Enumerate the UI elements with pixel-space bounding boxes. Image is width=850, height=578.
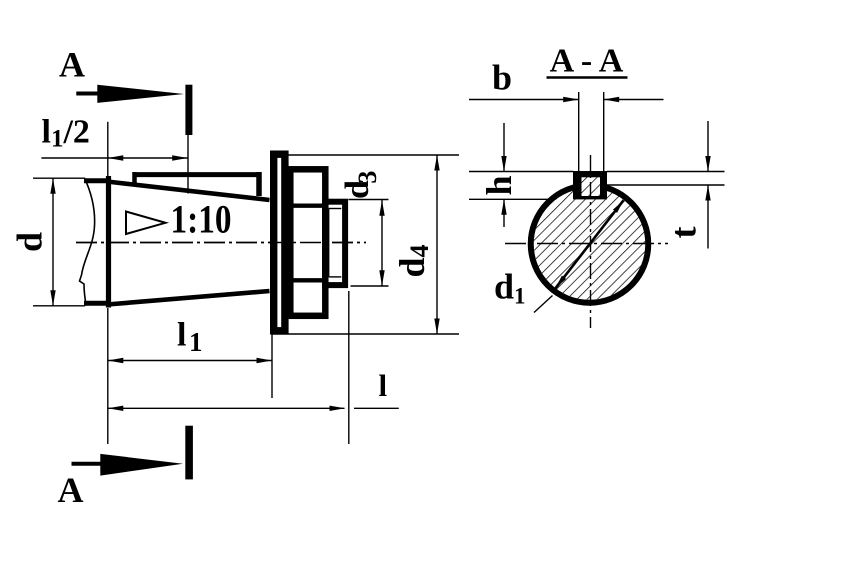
arrow b left pointing right [563, 97, 579, 102]
arrow l1 right [257, 358, 273, 363]
svg-text:A: A [59, 45, 85, 85]
extension line below section bar [187, 135, 189, 194]
arrow d4 top [434, 155, 439, 171]
dimension line l1/2 [41, 157, 188, 159]
dimension line d3 [381, 200, 383, 286]
dimension line h lower stem [503, 199, 505, 227]
svg-text:d: d [10, 232, 50, 252]
extension line b right [603, 92, 605, 180]
extension line keyway top level (h and t) [469, 171, 574, 173]
cone big end edge [106, 176, 111, 308]
section bar top [185, 85, 192, 135]
svg-text:l1/2: l1/2 [42, 114, 90, 153]
extension line left of dimension d bottom [33, 305, 85, 307]
section arrow top tail [76, 92, 99, 96]
nut body [290, 169, 325, 315]
extension line b left [578, 92, 580, 180]
svg-text:b: b [492, 58, 512, 98]
key top line on cone [134, 172, 261, 177]
CENTERLINES [76, 155, 668, 328]
centerline left view over white interiors [76, 242, 366, 244]
dimension line t upper stem [707, 121, 709, 172]
leader line d1 [534, 296, 553, 313]
extension line t bottom (circle top tangent) [605, 184, 725, 186]
arrow h bottom pointing up [501, 199, 506, 215]
THIN LINES LEFT VIEW [33, 122, 459, 444]
shaft cylinder top line [84, 178, 110, 183]
extension line right end of shaft [348, 291, 350, 444]
extension line left of dimension d top [33, 177, 85, 179]
taper symbol triangle 1:10 [126, 212, 166, 235]
LEFT VIEW THICK SHAPES [80, 154, 346, 331]
arrow h top pointing down [501, 156, 506, 172]
cone top generatrix [107, 182, 270, 201]
d1 diameter arrow [555, 200, 623, 288]
section bar bottom [185, 426, 193, 480]
arrow l1/2 left [108, 155, 124, 160]
svg-text:h: h [479, 175, 519, 195]
extension line h bottom [469, 198, 557, 200]
dimension line l1 [108, 360, 272, 362]
dimension line h upper stem [503, 123, 505, 172]
centerline section vertical [590, 155, 592, 328]
shaft section outline circle [531, 185, 649, 303]
arrow l1 left [108, 358, 124, 363]
arrow d3 bottom [379, 270, 384, 286]
arrow t bottom pointing up [705, 185, 710, 201]
extension line d4 bottom [273, 333, 460, 335]
section arrow top triangle [97, 85, 184, 103]
dimension line l left part [108, 407, 345, 409]
arrow d top [50, 178, 55, 194]
extension line x=107.5 top [107, 122, 109, 176]
arrow l1/2 right [172, 155, 188, 160]
dimension line b left part [469, 99, 579, 101]
dimension line d [52, 178, 54, 306]
extension line d3 bottom [351, 285, 389, 287]
svg-text:l: l [379, 368, 388, 403]
thread minor diameter lines [328, 209, 330, 277]
svg-text:A - A: A - A [550, 43, 624, 80]
arrow d3 top [379, 200, 384, 216]
threaded end [325, 202, 345, 285]
underline of A - A [547, 76, 628, 79]
arrow l right [330, 406, 346, 411]
nut lower facet line [289, 278, 326, 282]
DIMENSION ARROWHEADS [50, 97, 710, 411]
cone bottom generatrix [107, 291, 270, 305]
arrow d bottom [50, 290, 55, 306]
section arrow bottom triangle [100, 454, 183, 476]
arrow t top pointing down [705, 156, 710, 172]
dimension line t lower stem [707, 185, 709, 249]
washer [274, 154, 285, 331]
arrow b right pointing left [604, 97, 620, 102]
key right end edge [256, 172, 262, 196]
centerline left view horizontal [76, 242, 366, 244]
svg-text:1:10: 1:10 [171, 197, 232, 242]
svg-text:t: t [664, 227, 704, 239]
THIN LINES SECTION VIEW [469, 92, 725, 313]
arrow l left [108, 406, 124, 411]
svg-text:A: A [58, 470, 84, 510]
SECTION CIRCLE hatched shaft section [534, 188, 646, 300]
dimension line l right part [354, 407, 399, 409]
extension line right of l1 [271, 330, 273, 398]
extension line d3 top [349, 199, 389, 201]
arrow d4 bottom [434, 319, 439, 335]
section arrow bottom tail [72, 462, 103, 466]
keyway black body [573, 171, 607, 199]
key left step [132, 172, 137, 185]
shaft cylinder bottom line [84, 301, 110, 306]
nut upper facet line [289, 203, 326, 207]
break wavy line [80, 178, 95, 306]
keyway hatched inner slot [582, 177, 601, 196]
dimension line b right part [604, 99, 664, 101]
dimension line d4 [436, 155, 438, 334]
extension line x=107.5 bottom [107, 308, 109, 444]
centerline section horizontal [505, 243, 668, 245]
extension line d4 top [288, 154, 460, 156]
